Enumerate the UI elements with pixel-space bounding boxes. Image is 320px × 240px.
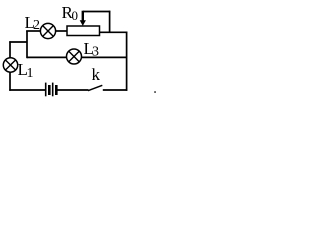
wire: bottom rail from switch to bottom-right corner	[103, 89, 128, 91]
svg-text:k: k	[92, 65, 101, 84]
label R0	[62, 3, 79, 23]
label L2	[25, 13, 41, 33]
lamp L2	[40, 23, 55, 38]
wire: left branch down to lamp L1 top	[9, 41, 11, 58]
label L1	[18, 60, 34, 81]
wire: bottom rail left segment to battery	[9, 89, 45, 91]
wire: L3 row right segment to right branch	[82, 56, 127, 58]
wire: right branch vertical	[126, 32, 128, 91]
svg-text:2: 2	[33, 18, 40, 33]
wire: L2 row left segment	[26, 30, 41, 32]
wire: slider lead horizontal top	[83, 11, 110, 13]
lamp L1	[3, 58, 17, 72]
svg-text:0: 0	[72, 8, 79, 23]
wire: lamp L1 bottom down to bottom rail	[9, 72, 11, 91]
wire: lamp L2 to rheostat R0	[56, 30, 68, 32]
lamp L3	[67, 49, 82, 64]
wire: tap from node A to left branch, y=42	[9, 41, 27, 43]
wire: L3 row left segment	[27, 56, 67, 58]
wire: slider lead vertical down	[109, 11, 111, 33]
label L3	[84, 39, 100, 60]
wire: R0 right terminal to top-right corner	[100, 31, 128, 33]
svg-text:1: 1	[27, 66, 34, 81]
rheostat slider arrow	[80, 11, 86, 26]
battery cell 1 long plate	[45, 83, 47, 97]
switch k blade (open)	[88, 85, 102, 90]
stray dot (punctuation) bottom right	[154, 91, 156, 93]
battery cell 2 long plate	[52, 83, 54, 97]
wire: middle vertical joining L2 row, node A and L3 row	[26, 31, 28, 59]
battery cell 1 short thick plate	[48, 85, 51, 95]
wire: bottom rail from battery to switch	[58, 89, 89, 91]
battery cell 2 short thick plate	[55, 85, 58, 95]
resistor R0 (rheostat body)	[67, 26, 100, 36]
